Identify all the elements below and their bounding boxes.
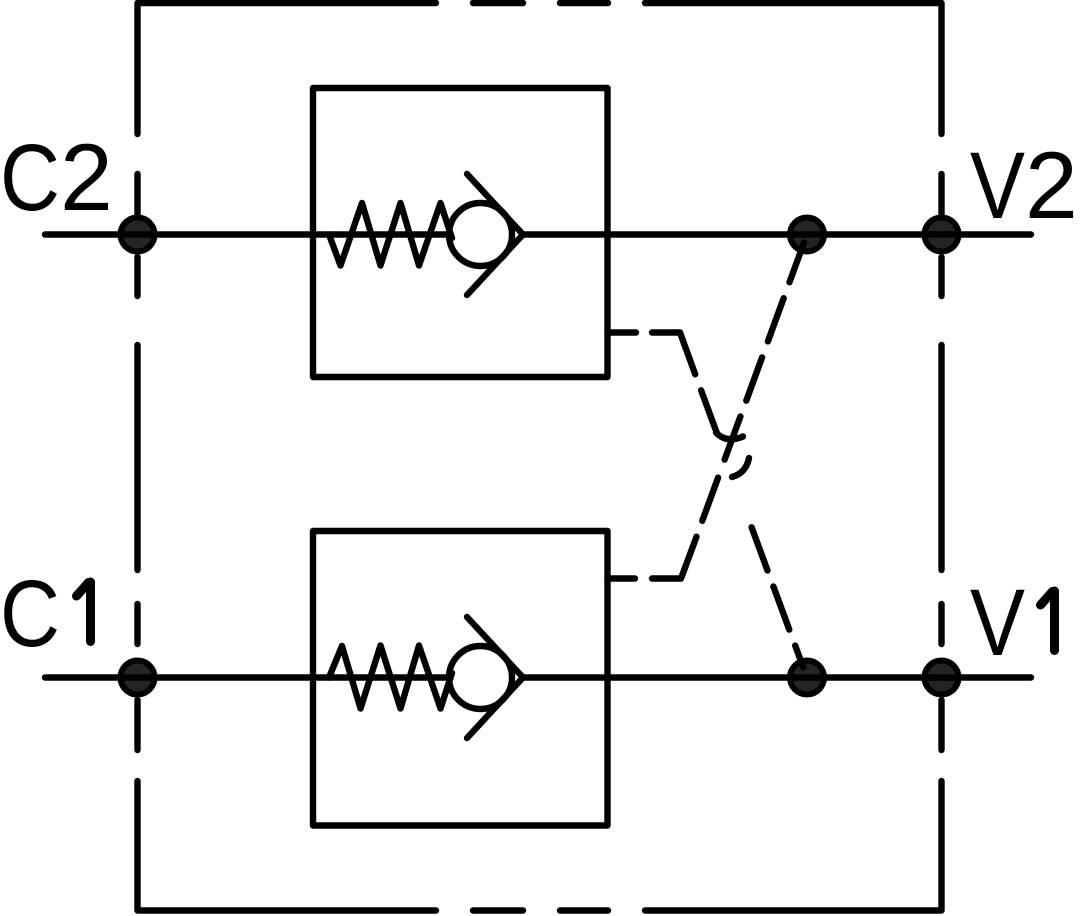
svg-text:C: C: [0, 125, 60, 231]
svg-text:V: V: [970, 570, 1025, 676]
svg-text:2: 2: [1025, 133, 1078, 239]
svg-text:V: V: [970, 133, 1025, 239]
svg-text:2: 2: [60, 125, 113, 231]
svg-text:C: C: [0, 561, 60, 667]
